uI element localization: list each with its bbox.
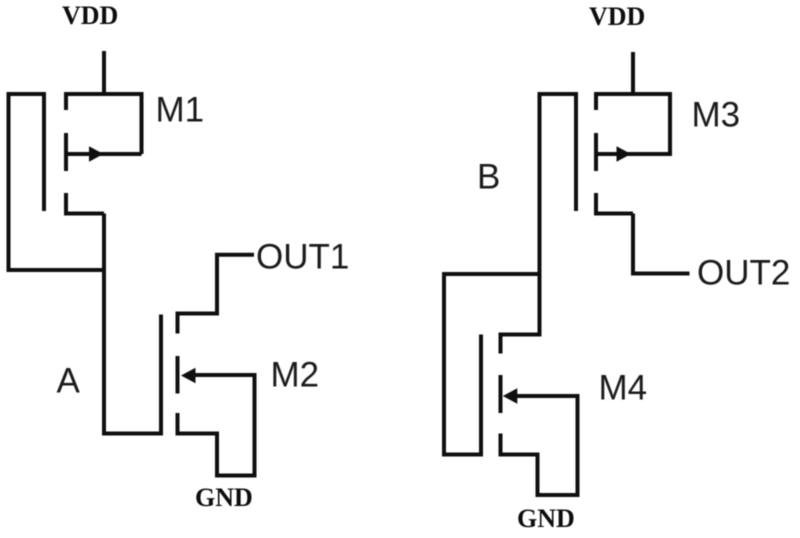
wire M1 drain / node A [102, 214, 106, 434]
svg-text:OUT2: OUT2 [697, 254, 790, 293]
svg-text:B: B [477, 158, 500, 197]
svg-text:M4: M4 [599, 369, 648, 408]
transistor M1 [44, 92, 144, 215]
transistor M2 [161, 312, 257, 478]
svg-text:GND: GND [195, 483, 253, 512]
wire M3 gate to node B and M4 drain [501, 94, 579, 335]
wire M3 drain to OUT2 [633, 214, 690, 274]
svg-text:M1: M1 [156, 91, 205, 130]
svg-text:VDD: VDD [62, 1, 118, 30]
svg-text:M2: M2 [271, 356, 320, 395]
svg-text:VDD: VDD [589, 2, 645, 31]
svg-text:M3: M3 [692, 96, 741, 135]
svg-text:A: A [57, 362, 81, 401]
wire VDD to M3 top [631, 52, 635, 94]
wire M2 drain to OUT1 [217, 255, 254, 316]
transistor M4 [481, 333, 580, 498]
wire M1 gate feedback loop [9, 94, 105, 270]
svg-text:OUT1: OUT1 [256, 238, 349, 277]
svg-text:GND: GND [517, 504, 575, 533]
wire VDD to M1 top [102, 51, 106, 94]
wire node B to M4 gate [444, 274, 540, 455]
wire node A to M2 gate [102, 432, 161, 436]
transistor M3 [576, 92, 672, 215]
